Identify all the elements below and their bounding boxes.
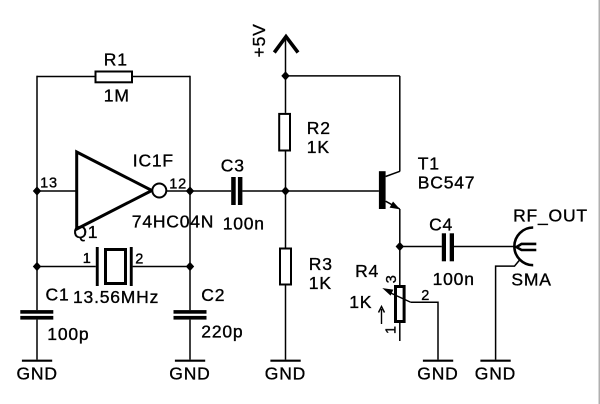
op-amp U1 : inverter IC1F	[77, 152, 152, 229]
wire right vertical	[189, 76, 191, 310]
node B (left rail / crystal)	[33, 262, 41, 271]
svg-text:100n: 100n	[433, 269, 475, 289]
svg-text:3: 3	[384, 274, 400, 283]
svg-text:1M: 1M	[104, 86, 130, 106]
node G (emitter / C4 / R4)	[396, 242, 404, 251]
svg-text:T1: T1	[418, 154, 440, 174]
node D (right rail / crystal)	[186, 262, 194, 271]
power +5V	[249, 23, 298, 57]
ground (C1)	[17, 361, 58, 384]
ground (R3)	[265, 361, 306, 384]
wire pot pin 2 to ground	[411, 302, 438, 359]
svg-text:C1: C1	[46, 284, 70, 304]
svg-text:BC547: BC547	[418, 173, 476, 193]
node E (+5V branch)	[281, 71, 289, 80]
node F (R2/R3 signal)	[281, 186, 289, 195]
svg-text:SMA: SMA	[511, 269, 551, 289]
svg-text:RF_OUT: RF_OUT	[513, 206, 588, 227]
wire C4 to SMA	[454, 246, 517, 248]
svg-text:1K: 1K	[349, 292, 372, 312]
wire node to C3	[190, 190, 231, 192]
svg-text:R2: R2	[307, 118, 331, 138]
svg-text:74HC04N: 74HC04N	[132, 211, 214, 231]
right edge border	[599, 0, 600, 404]
svg-text:GND: GND	[169, 364, 210, 384]
svg-text:1K: 1K	[309, 273, 332, 293]
svg-text:2: 2	[421, 288, 430, 304]
svg-text:GND: GND	[17, 364, 58, 384]
svg-text:13: 13	[40, 176, 58, 192]
svg-text:R1: R1	[104, 50, 128, 70]
svg-text:+5V: +5V	[249, 23, 269, 57]
svg-text:C4: C4	[429, 214, 453, 234]
svg-text:1K: 1K	[307, 137, 330, 157]
capacitor C1	[20, 284, 89, 344]
svg-text:IC1F: IC1F	[133, 150, 174, 170]
wire emitter vertical	[399, 209, 401, 285]
wire C1 to ground	[36, 320, 38, 360]
potentiometer R4	[349, 261, 430, 334]
wire R1 row right	[133, 76, 190, 78]
ground (SMA)	[475, 361, 516, 384]
resistor R2	[279, 114, 290, 151]
wire left vertical	[36, 76, 38, 310]
svg-text:R3: R3	[309, 254, 333, 274]
wire crystal left	[37, 266, 96, 268]
wire C3 to base	[242, 190, 379, 192]
svg-text:1: 1	[83, 251, 92, 267]
node C (pin12 / right rail)	[186, 186, 194, 195]
wire collector vertical	[399, 76, 401, 172]
wire SMA shield to ground	[496, 260, 520, 360]
svg-text:C2: C2	[201, 285, 225, 305]
svg-text:C3: C3	[221, 155, 245, 175]
capacitor C4	[429, 214, 475, 289]
wire node to R3	[285, 191, 287, 248]
wire R1 row left	[37, 76, 95, 78]
wire pot bottom stub	[399, 323, 401, 341]
wire R3 to ground	[285, 286, 287, 360]
svg-text:Q1: Q1	[73, 222, 98, 242]
wire node to C4	[400, 246, 442, 248]
connector X1 SMA RF_OUT	[511, 206, 588, 290]
svg-text:220p: 220p	[201, 321, 243, 341]
wire inverter input	[37, 190, 76, 192]
ground (R4 pin 2)	[417, 361, 458, 384]
svg-text:GND: GND	[475, 364, 516, 384]
resistor R1	[96, 72, 133, 83]
crystal Q1 13.56MHz	[73, 222, 159, 307]
svg-text:GND: GND	[265, 364, 306, 384]
resistor R3	[280, 249, 291, 285]
svg-text:R4: R4	[355, 261, 379, 281]
svg-text:1: 1	[383, 325, 399, 334]
svg-text:12: 12	[169, 176, 187, 192]
wire +5V horizontal	[286, 75, 400, 77]
capacitor C3	[221, 155, 265, 233]
svg-text:13.56MHz: 13.56MHz	[73, 287, 159, 307]
wire crystal right	[133, 266, 190, 268]
wire inverter output	[167, 190, 191, 192]
wire C2 to ground	[189, 320, 191, 360]
svg-text:100n: 100n	[223, 214, 265, 234]
svg-text:2: 2	[135, 252, 144, 268]
wire R2 to node	[285, 152, 287, 192]
node A (pin13 / left rail)	[33, 186, 41, 195]
wire +5V vertical	[285, 38, 287, 113]
svg-text:100p: 100p	[47, 324, 89, 344]
svg-text:GND: GND	[417, 364, 458, 384]
ground (C2)	[169, 361, 210, 384]
capacitor C2	[174, 285, 244, 341]
transistor T1 BC547	[379, 154, 475, 209]
